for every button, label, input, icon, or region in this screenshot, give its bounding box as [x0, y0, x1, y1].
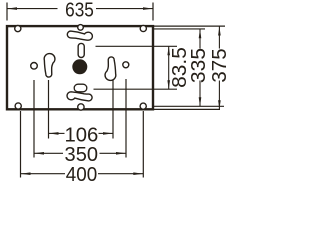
arrow 400 right — [133, 172, 143, 175]
arrow 335 down — [199, 97, 202, 106]
ext line 106 left — [48, 80, 50, 139]
dimension line 106 — [49, 132, 65, 134]
arrow 106 right — [103, 132, 113, 135]
top extension line right (635) — [152, 3, 154, 21]
dimension line 400 — [21, 173, 66, 175]
ext line 400 left — [20, 111, 22, 178]
bottom bone slot (180deg rotation of top bone) — [67, 92, 92, 101]
dimension line 350 — [34, 152, 63, 154]
ext line 350 right — [125, 79, 127, 158]
center black circle — [72, 59, 87, 74]
arrow 400 left — [21, 172, 31, 175]
dimension line 335 — [199, 29, 201, 48]
ext line 350 left — [33, 80, 35, 158]
arrow 635 left — [7, 7, 17, 10]
83.5 top ref line — [96, 45, 178, 47]
arrow 335 up — [199, 29, 202, 38]
corner hole bottom-left — [15, 103, 21, 109]
top extension line left (635) — [6, 3, 8, 21]
335 bottom ref line — [154, 105, 224, 107]
bottom knockout circle on edge — [78, 104, 84, 110]
right small circle — [123, 62, 129, 68]
arrow 375 up — [218, 27, 221, 36]
top oval slot — [78, 43, 84, 57]
arrow 350 right — [116, 152, 126, 155]
arrow 106 left — [49, 132, 59, 135]
ext line 400 right — [142, 111, 144, 178]
dimension line 375 — [218, 27, 220, 49]
ext line 106 right — [112, 80, 114, 139]
left kidney slot — [44, 54, 55, 78]
svg-text:635: 635 — [65, 0, 94, 22]
corner hole top-left — [15, 26, 21, 32]
335 top ref line — [154, 28, 205, 30]
svg-text:335: 335 — [187, 48, 210, 83]
dimension line 83.5 — [168, 46, 170, 89]
arrow 350 left — [34, 152, 44, 155]
left small circle — [31, 63, 38, 70]
svg-text:375: 375 — [208, 48, 226, 82]
arrow 83.5 down — [167, 80, 170, 89]
arrow 375 down — [218, 100, 221, 109]
dimension line 635 — [7, 8, 58, 10]
arrow 635 right — [143, 7, 153, 10]
arrow 83.5 up — [167, 46, 170, 55]
svg-text:400: 400 — [66, 164, 98, 184]
top bone slot — [67, 31, 92, 40]
375 bottom ref line — [154, 108, 220, 110]
right kidney slot (180deg rotation of left) — [105, 57, 116, 81]
top edge extension to right (375 top ref) — [154, 25, 225, 27]
plate outline — [7, 26, 153, 109]
top knockout circle on edge — [78, 25, 84, 31]
corner hole top-right — [140, 25, 146, 31]
83.5 bottom ref line — [94, 88, 178, 90]
corner hole bottom-right — [140, 103, 146, 109]
bottom obround knockout — [74, 84, 87, 92]
